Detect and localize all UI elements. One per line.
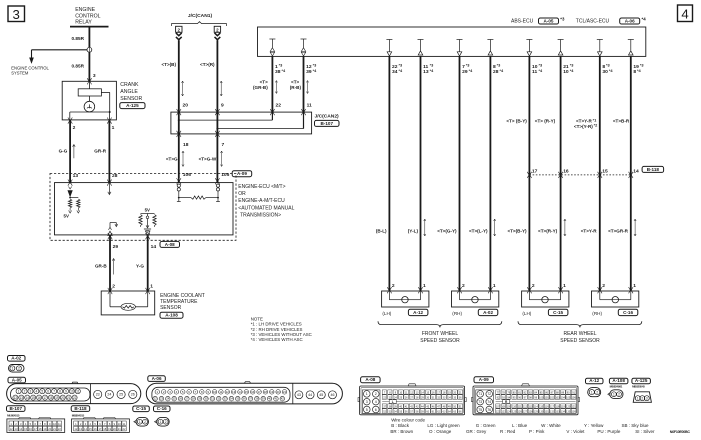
wire <T>Y-R [599, 56, 601, 291]
wire GR-B [109, 236, 111, 291]
svg-text:18: 18 [183, 142, 189, 148]
svg-text:135: 135 [566, 410, 571, 413]
svg-text:2: 2 [602, 283, 605, 289]
wire T R-B [303, 56, 305, 112]
svg-text:103: 103 [555, 396, 560, 399]
svg-text:A-09: A-09 [479, 377, 489, 382]
document code [670, 430, 691, 434]
svg-text:37: 37 [249, 397, 253, 401]
svg-text:O : Orange: O : Orange [429, 429, 452, 434]
harness code A-125 [632, 385, 645, 389]
sensor element A-12 [389, 291, 420, 303]
svg-text:3: 3 [646, 396, 648, 400]
svg-text:75: 75 [478, 408, 482, 412]
svg-text:A-06: A-06 [625, 18, 635, 23]
ecu output arrows pins 29 14 [108, 231, 150, 235]
svg-text:18: 18 [264, 390, 268, 394]
svg-text:A-02: A-02 [11, 356, 21, 361]
svg-text:44: 44 [308, 393, 312, 397]
svg-text:20: 20 [61, 396, 65, 400]
label J/C CAN2 [315, 113, 340, 119]
label T R-Y upper [535, 119, 556, 124]
svg-text:20: 20 [277, 390, 281, 394]
label T GR-B [253, 80, 268, 90]
direction arrows CAN1 [182, 81, 223, 96]
svg-text:2: 2 [618, 392, 620, 396]
svg-text:134: 134 [561, 410, 566, 413]
svg-text:ABS-ECU: ABS-ECU [511, 19, 534, 25]
svg-text:9: 9 [65, 389, 67, 393]
svg-text:23: 23 [160, 397, 164, 401]
connector ref A-125 [120, 103, 145, 109]
svg-text:2: 2 [165, 420, 167, 424]
wheel sensor pin numbers [392, 283, 636, 289]
svg-text:10: 10 [70, 389, 74, 393]
svg-text:4: 4 [681, 6, 688, 21]
svg-text:15: 15 [245, 390, 249, 394]
svg-text:73: 73 [478, 400, 482, 404]
svg-text:14: 14 [633, 168, 639, 174]
svg-text:129: 129 [534, 410, 539, 413]
sensor element A-02 [460, 291, 491, 303]
wheel speed sensor box C-15 [522, 291, 569, 307]
svg-text:71: 71 [478, 392, 482, 396]
svg-text:<T>GR-R: <T>GR-R [608, 229, 629, 234]
svg-text:<T>G: <T>G [166, 156, 178, 161]
svg-text:CONTROL: CONTROL [75, 13, 100, 19]
svg-text:46: 46 [331, 393, 335, 397]
svg-text:ENGINE: ENGINE [75, 7, 95, 13]
svg-text:16: 16 [563, 168, 569, 174]
abs box arrow up 1 [418, 40, 424, 56]
svg-text:B : Black: B : Black [391, 423, 410, 428]
svg-text:123: 123 [501, 410, 506, 413]
CAN2 bus link R [216, 112, 303, 130]
svg-text:34: 34 [392, 69, 398, 75]
svg-text:SYSTEM: SYSTEM [11, 70, 29, 75]
svg-text:2: 2 [462, 283, 465, 289]
svg-text:34: 34 [230, 397, 234, 401]
svg-text:12: 12 [10, 427, 13, 431]
svg-text:Y-G: Y-G [136, 263, 144, 268]
svg-text:25: 25 [119, 393, 123, 397]
svg-text:2: 2 [641, 396, 643, 400]
label <T>GR-R lower [608, 229, 629, 234]
wheel speed sensor box A-02 [452, 291, 499, 307]
ecu top connectors pins 106 105 [177, 178, 220, 184]
svg-text:5: 5 [366, 408, 368, 412]
svg-text:136: 136 [572, 410, 577, 413]
wire T G-W [216, 134, 218, 178]
svg-text:LG : Light green: LG : Light green [427, 423, 460, 428]
svg-text:10: 10 [213, 390, 217, 394]
svg-text:3: 3 [13, 7, 20, 22]
wire 0.85R lower [88, 52, 90, 81]
svg-text:10: 10 [563, 69, 569, 75]
svg-text:C-16: C-16 [157, 406, 167, 411]
wire T GR-B [271, 56, 273, 112]
connector ref C-15 [548, 309, 568, 315]
svg-text:12: 12 [226, 390, 230, 394]
svg-text:28: 28 [493, 69, 499, 75]
svg-text:MU804515: MU804515 [7, 413, 20, 417]
label TCL/ASC-ECU [576, 19, 610, 25]
connector ref A-108 inline [160, 312, 183, 318]
svg-text:12: 12 [306, 64, 312, 70]
pins 29 14 [113, 244, 157, 250]
svg-text:A-125: A-125 [635, 378, 648, 383]
svg-text:5V: 5V [145, 207, 150, 212]
wire <T>(G-Y) [459, 56, 461, 291]
svg-text:111: 111 [518, 405, 522, 408]
svg-text:3: 3 [30, 389, 32, 393]
svg-text:19: 19 [55, 396, 59, 400]
svg-text:104: 104 [561, 396, 566, 399]
svg-text:J/C(CAN1): J/C(CAN1) [188, 13, 213, 19]
connector A-06 face [146, 382, 342, 404]
svg-text:115: 115 [539, 405, 544, 408]
ecu internal CAN termination resistor [177, 184, 220, 202]
svg-text:105: 105 [566, 396, 571, 399]
svg-text:19: 19 [270, 390, 274, 394]
svg-text:27: 27 [185, 397, 189, 401]
svg-text:14: 14 [19, 427, 22, 431]
svg-text:21: 21 [67, 396, 71, 400]
svg-text:(R-B): (R-B) [290, 85, 302, 90]
svg-text:15: 15 [24, 427, 27, 431]
svg-text:11: 11 [76, 389, 80, 393]
svg-text:1: 1 [11, 367, 13, 371]
svg-text:28: 28 [192, 397, 196, 401]
wire Y-G [147, 236, 149, 291]
svg-text:<T>G-W: <T>G-W [199, 156, 217, 161]
svg-text:(GR-B): (GR-B) [253, 85, 268, 90]
direction arrow [73, 145, 76, 159]
svg-text:11: 11 [532, 69, 537, 75]
svg-text:17: 17 [532, 168, 538, 174]
connectors at crank sensor pins 2 1 [68, 118, 112, 124]
svg-text:18: 18 [103, 427, 106, 431]
svg-text:102: 102 [550, 396, 555, 399]
svg-text:6: 6 [375, 408, 377, 412]
label <T>(R-Y) lower [538, 229, 558, 234]
pins 18 7 [183, 142, 225, 148]
svg-text:8: 8 [602, 64, 605, 70]
label T B-R upper [613, 119, 630, 124]
wire <T>(B-Y) [528, 56, 530, 291]
svg-text:29: 29 [198, 397, 202, 401]
direction arrows [182, 151, 223, 167]
svg-text:122: 122 [496, 410, 501, 413]
connector A-05 face [7, 382, 141, 404]
svg-text:V : Violet: V : Violet [566, 429, 585, 434]
B-118 dashed connector line [529, 174, 630, 176]
svg-text:<T>(L-Y): <T>(L-Y) [469, 229, 488, 234]
svg-text:119: 119 [561, 405, 566, 408]
svg-text:P : Pink: P : Pink [529, 429, 545, 434]
ecu top connectors pins 13 28 [68, 180, 112, 186]
direction arrow [112, 259, 115, 275]
svg-text:<T>B-R: <T>B-R [613, 119, 630, 124]
note ref *3 [560, 17, 565, 22]
value label 0.85R upper [72, 36, 85, 41]
label J/C CAN1 [188, 13, 213, 19]
label (RH) [592, 311, 602, 316]
svg-text:B-107: B-107 [320, 121, 333, 126]
svg-text:13: 13 [232, 390, 236, 394]
svg-text:35: 35 [236, 397, 240, 401]
pins 2 1 crank sensor [73, 125, 115, 131]
svg-text:1: 1 [591, 390, 593, 394]
svg-text:22: 22 [276, 102, 282, 108]
CAN2 through wires [179, 112, 218, 134]
legend title [391, 418, 425, 423]
front brace [378, 321, 502, 327]
svg-text:2: 2 [596, 390, 598, 394]
svg-text:17: 17 [34, 427, 37, 431]
svg-text:16: 16 [29, 427, 32, 431]
svg-text:20: 20 [183, 102, 189, 108]
abs box arrow down 4 [526, 40, 532, 57]
svg-text:1: 1 [423, 283, 426, 289]
label <T>(B-Y) lower [507, 229, 527, 234]
svg-text:A-06: A-06 [152, 376, 162, 381]
connector ref A-12 [408, 309, 428, 315]
svg-text:21: 21 [283, 390, 287, 394]
connector ref A-08 inline [160, 241, 180, 247]
svg-text:131: 131 [545, 410, 550, 413]
legend line 1 [391, 423, 649, 428]
svg-text:118: 118 [555, 405, 560, 408]
svg-text:*4: *4 [642, 17, 647, 22]
svg-text:<T>(B): <T>(B) [161, 62, 176, 67]
sensor element C-16 [600, 291, 631, 303]
svg-text:<T>Y-R: <T>Y-R [581, 229, 598, 234]
pins 20 9 [183, 102, 225, 108]
svg-text:<T> (B-Y): <T> (B-Y) [506, 119, 527, 124]
label T G [166, 156, 178, 161]
connector A-125 face [633, 392, 651, 403]
svg-text:ENGINE-A-M/T-ECU: ENGINE-A-M/T-ECU [238, 198, 285, 204]
connector ref B-118 inline [642, 166, 664, 172]
svg-text:16: 16 [251, 390, 255, 394]
svg-text:11: 11 [307, 102, 312, 108]
rear brace [518, 321, 642, 327]
wire stubs into ecu [179, 178, 218, 183]
label (B-L) lower [376, 229, 387, 234]
node engine control system [11, 65, 49, 75]
abs box arrow down 0 [386, 40, 392, 57]
svg-text:16: 16 [37, 396, 41, 400]
svg-text:J/C(CAN2): J/C(CAN2) [315, 113, 340, 119]
svg-text:<T>(B-Y): <T>(B-Y) [507, 229, 527, 234]
connector A-12 face [588, 388, 601, 397]
svg-text:39: 39 [262, 397, 266, 401]
svg-text:11: 11 [219, 390, 222, 394]
svg-text:21: 21 [53, 427, 56, 431]
svg-text:14: 14 [238, 390, 242, 394]
joint connector CAN2 box [171, 112, 312, 134]
direction arrows CAN2 wires [275, 81, 308, 94]
frame marker 3 [8, 6, 25, 22]
svg-text:15: 15 [89, 427, 92, 431]
pins 106 105 [183, 172, 230, 178]
svg-text:B-118: B-118 [74, 406, 87, 411]
svg-text:30: 30 [602, 69, 608, 75]
svg-text:5: 5 [41, 389, 43, 393]
svg-text:0.85R: 0.85R [72, 64, 85, 69]
wire CAN1 R [216, 40, 218, 112]
connector ref A-06 [148, 376, 166, 382]
label (LH) [382, 311, 391, 316]
svg-text:0.85R: 0.85R [72, 36, 85, 41]
svg-text:22: 22 [73, 396, 77, 400]
svg-text:G-G: G-G [59, 149, 68, 154]
svg-text:12: 12 [74, 427, 77, 431]
connector ref A-05 [8, 377, 26, 383]
label <T>Y-R lower [581, 229, 598, 234]
svg-text:26: 26 [131, 393, 135, 397]
pins 2 1 coolant sensor [112, 284, 153, 290]
wire to engine control system with arrow [30, 50, 87, 63]
abs box arrow up 5 [558, 40, 564, 56]
svg-text:117: 117 [550, 405, 555, 408]
svg-text:(RH): (RH) [592, 311, 602, 316]
label <T>(L-Y) lower [469, 229, 488, 234]
abs box arrow up 3 [487, 40, 493, 56]
svg-text:15: 15 [31, 396, 35, 400]
abs box CAN arrow 1 [269, 39, 275, 56]
junction connector circle [87, 47, 92, 52]
svg-text:22: 22 [153, 397, 157, 401]
svg-text:3: 3 [93, 73, 96, 79]
direction arrow [494, 219, 496, 236]
label T G-W [199, 156, 217, 161]
svg-text:A-08: A-08 [365, 377, 375, 382]
svg-text:132: 132 [550, 410, 555, 413]
svg-text:REAR WHEEL: REAR WHEEL [563, 331, 596, 337]
direction arrow [424, 219, 426, 236]
connector ref A-06 top [620, 18, 640, 24]
note ref *4 [642, 17, 647, 22]
svg-text:SPEED SENSOR: SPEED SENSOR [560, 338, 600, 344]
svg-text:24: 24 [166, 397, 170, 401]
svg-text:17: 17 [98, 427, 101, 431]
svg-text:(Y-L): (Y-L) [408, 229, 419, 234]
svg-text:6: 6 [47, 389, 49, 393]
svg-text:22: 22 [123, 427, 126, 431]
label (RH) [452, 311, 462, 316]
svg-text:2: 2 [73, 125, 76, 131]
svg-text:SB : Sky blue: SB : Sky blue [622, 423, 650, 428]
svg-text:3: 3 [366, 400, 368, 404]
svg-text:9: 9 [221, 102, 224, 108]
svg-text:18: 18 [49, 396, 53, 400]
connector ref A-02 [8, 356, 26, 362]
svg-text:1: 1 [160, 420, 162, 424]
svg-text:7: 7 [462, 64, 465, 70]
label T R [200, 62, 215, 67]
svg-text:36: 36 [243, 397, 247, 401]
svg-text:39: 39 [306, 69, 312, 75]
label ABS-ECU [511, 19, 534, 25]
svg-text:10: 10 [53, 422, 56, 426]
svg-text:GR : Grey: GR : Grey [466, 429, 487, 434]
connector ref A-108 [609, 378, 628, 384]
front wheel speed sensor title [420, 331, 460, 344]
label <T>(G-Y) lower [437, 229, 457, 234]
svg-text:CRANK: CRANK [120, 82, 139, 88]
svg-text:120: 120 [566, 405, 571, 408]
connector ref A-12 [586, 378, 604, 384]
svg-text:106: 106 [572, 396, 577, 399]
svg-text:SI : Silver: SI : Silver [635, 429, 655, 434]
connector C-15 face [134, 417, 149, 426]
ecu internal 5V divider and ground [139, 207, 156, 232]
svg-text:8: 8 [59, 389, 61, 393]
label GR-R [94, 149, 106, 154]
svg-text:42: 42 [281, 397, 285, 401]
abs tcl ecu box [258, 27, 646, 56]
svg-text:1: 1 [493, 283, 496, 289]
svg-text:MB820545: MB820545 [632, 385, 645, 389]
svg-text:W : White: W : White [541, 423, 561, 428]
wire (B-L) [388, 56, 390, 291]
svg-text:20: 20 [113, 427, 116, 431]
crank angle sensor label [120, 82, 142, 102]
svg-text:1: 1 [366, 392, 368, 396]
engine ecu inner box [55, 183, 234, 235]
svg-text:17: 17 [257, 390, 261, 394]
svg-text:43: 43 [297, 393, 301, 397]
svg-text:26: 26 [179, 397, 183, 401]
svg-text:<T>(G-Y): <T>(G-Y) [437, 229, 457, 234]
svg-text:22: 22 [58, 427, 61, 431]
svg-text:4: 4 [375, 400, 377, 404]
svg-text:106: 106 [183, 172, 191, 178]
svg-text:112: 112 [523, 405, 528, 408]
svg-text:13: 13 [20, 396, 24, 400]
svg-text:1: 1 [18, 389, 20, 393]
svg-text:100: 100 [539, 396, 544, 399]
svg-text:B-118: B-118 [647, 167, 660, 172]
svg-text:BR : Brown: BR : Brown [390, 429, 413, 434]
svg-text:A-12: A-12 [413, 310, 423, 315]
svg-text:7: 7 [53, 389, 55, 393]
svg-text:30: 30 [204, 397, 208, 401]
svg-text:SPEED SENSOR: SPEED SENSOR [420, 338, 460, 344]
svg-text:101: 101 [545, 396, 550, 399]
connectors at coolant sensor [108, 288, 150, 294]
abs box CAN arrow 2 [301, 39, 307, 56]
svg-text:A-08: A-08 [165, 242, 175, 247]
rear wheel speed sensor title [560, 331, 600, 344]
coolant sensor label [160, 293, 205, 311]
svg-text:19: 19 [108, 427, 111, 431]
B-118 connectors [527, 172, 633, 178]
wheel speed sensor box A-12 [382, 291, 429, 307]
label Y-G [136, 263, 144, 268]
svg-text:2: 2 [532, 283, 535, 289]
svg-text:116: 116 [545, 405, 550, 408]
pins 22 11 [276, 102, 313, 108]
svg-text:1: 1 [139, 420, 141, 424]
label T Y-R upper [574, 117, 598, 128]
svg-text:1: 1 [275, 64, 278, 70]
connector ref A-02 [478, 309, 498, 315]
svg-text:ENGINE-ECU <M/T>: ENGINE-ECU <M/T> [238, 184, 285, 190]
svg-text:113: 113 [528, 405, 533, 408]
